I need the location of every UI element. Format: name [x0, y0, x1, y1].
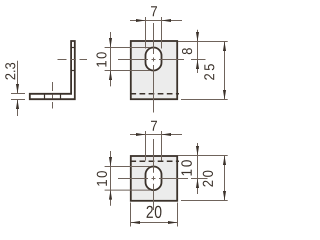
front view: slot hole: [146, 48, 162, 71]
top view: slot hole: [146, 167, 162, 191]
top view dimension 7: dimension line with outside arrows: [130, 134, 182, 136]
top view: horizontal centerline: [118, 178, 188, 180]
side view: L-bracket profile outline: [30, 41, 75, 99]
front view dimension 10: dimension line with outside arrows: [110, 32, 112, 86]
top view dimension 20 right: dimension line with inside arrows: [224, 156, 226, 201]
front view dimension 8: extension lines: [178, 42, 206, 60]
front view dimension 7: value label: [151, 6, 157, 16]
front view dimension 8: dimension line with outside arrows: [197, 30, 199, 73]
top view dimension 20 bottom: extension lines: [131, 203, 178, 227]
front view: vertical centerline: [153, 23, 155, 113]
top view dimension 10 right: value label: [181, 160, 192, 175]
top view dimension 10 left: value label: [97, 171, 107, 186]
front view dimension 25: extension lines: [181, 42, 228, 100]
top view: hidden bend edge (dashed): [130, 160, 179, 162]
side view: slot edge tick left (horizontal leg): [44, 94, 46, 99]
front view dimension 8: value label: [182, 48, 192, 54]
top view dimension 10 right: dimension line with outside arrows: [197, 143, 199, 194]
dimension 2.3: value label: [5, 63, 15, 80]
front view: horizontal centerline: [118, 59, 184, 61]
dimension 2.3: dimension line with outside arrows: [17, 61, 19, 116]
top view: vertical centerline: [153, 139, 155, 210]
top view dimension 10 left: extension lines: [105, 167, 150, 191]
front view dimension 25: dimension line with inside arrows: [224, 42, 226, 100]
top view dimension 20 right: extension line bottom: [181, 200, 228, 202]
top view dimension 7: value label: [151, 121, 157, 131]
side view: slot edge tick right (horizontal leg): [60, 94, 62, 99]
side view: slot edge tick upper (vertical leg): [71, 47, 75, 49]
front view: plate outline: [131, 41, 177, 99]
top view dimension 10 left: dimension line with outside arrows: [110, 151, 112, 206]
front view dimension 7: dimension line with outside arrows: [130, 20, 182, 22]
top view dimension 20 bottom: dimension line with inside arrows: [131, 222, 178, 224]
front view dimension 25: value label: [204, 64, 214, 80]
dimension 2.3: extension ticks: [11, 94, 25, 100]
front view dimension 10: value label: [96, 52, 106, 66]
top view dimension 20 right: value label: [203, 171, 213, 187]
front view: hidden edge of horizontal leg (dashed): [130, 93, 179, 95]
front view dimension 7: extension lines: [146, 17, 162, 49]
side view: slot edge tick lower (vertical leg): [71, 70, 75, 72]
front view dimension 10: extension lines: [105, 48, 150, 71]
top view: plate outline: [131, 156, 177, 201]
top view dimension 10 right: extension lines: [178, 156, 228, 179]
side view: horizontal centerline through vertical leg: [58, 59, 88, 61]
side view: vertical centerline through horizontal leg: [52, 82, 54, 109]
top view dimension 7: extension lines: [146, 131, 162, 161]
top view dimension 20 bottom: value label: [147, 206, 162, 218]
